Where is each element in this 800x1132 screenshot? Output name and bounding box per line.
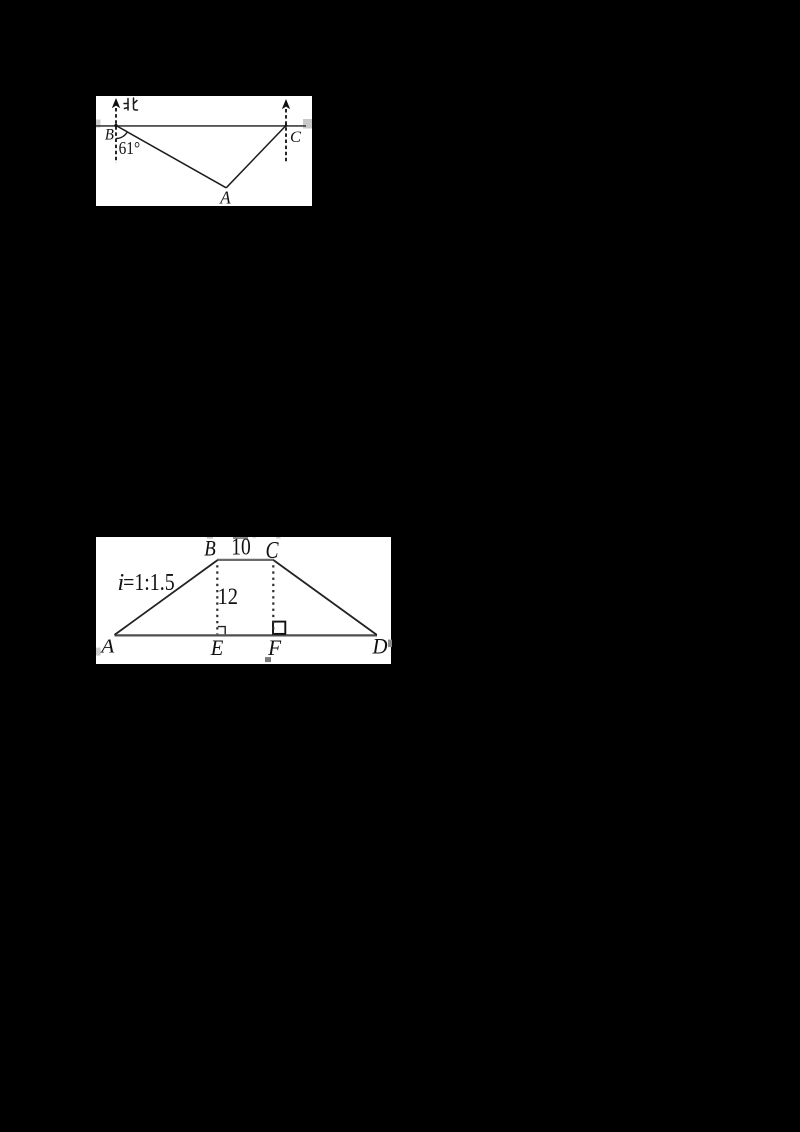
- north arrowhead at B: [112, 98, 120, 108]
- svg-text:F: F: [267, 635, 281, 660]
- svg-text:A: A: [99, 636, 115, 658]
- side CD: [273, 560, 376, 635]
- svg-text:B: B: [105, 127, 115, 144]
- grey artifact right of D: [388, 640, 392, 648]
- angle arc at B (61 degrees): [116, 132, 127, 139]
- svg-text:A: A: [219, 188, 231, 207]
- side CA: [226, 126, 286, 188]
- node B dot: [114, 124, 117, 127]
- 北 (north) character drawn as strokes: [124, 98, 138, 110]
- svg-text:E: E: [209, 636, 223, 661]
- svg-text:61°: 61°: [119, 138, 141, 158]
- north dashed line at C: [285, 109, 287, 163]
- base AD: [114, 635, 377, 637]
- grey artifact right end of horizontal line: [303, 119, 312, 129]
- grey artifact left edge near A: [96, 648, 101, 656]
- grey artifact left end of horizontal line: [96, 120, 101, 128]
- dotted altitude CF: [272, 566, 274, 635]
- wire horizontal line through B and C: [96, 125, 306, 127]
- side AB: [114, 560, 217, 635]
- svg-text:10: 10: [231, 537, 251, 561]
- north dashed line at B: [115, 108, 117, 163]
- right-angle square at F: [273, 622, 285, 634]
- grey tick artifact above C: [276, 537, 280, 539]
- svg-text:=1:1.5: =1:1.5: [123, 570, 175, 596]
- figure 2: trapezoid ABCD with heights BE, CF: [96, 537, 392, 664]
- side BA: [116, 126, 226, 188]
- svg-text:12: 12: [217, 584, 238, 609]
- grey dot below F: [265, 657, 271, 662]
- grey tick artifact above 10: [233, 537, 248, 539]
- figure 1: bearing diagram (triangle ABC with north arrows): [96, 96, 312, 206]
- right-angle mark at E: [217, 627, 224, 635]
- grey tick artifact above B: [206, 537, 212, 539]
- north arrowhead at C: [282, 99, 290, 109]
- svg-text:C: C: [265, 538, 279, 564]
- svg-text:C: C: [290, 129, 301, 146]
- node C dot: [285, 124, 288, 127]
- svg-text:B: B: [204, 537, 216, 561]
- top BC: [217, 559, 274, 561]
- svg-text:D: D: [371, 634, 387, 659]
- dotted altitude BE: [216, 566, 218, 635]
- grey tick artifact right of 10: [252, 537, 256, 538]
